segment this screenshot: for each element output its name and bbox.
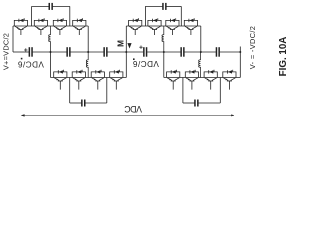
arrowhead pointing to node M [127,43,131,48]
IGBT cell Q6 with antiparallel diode D6 [148,18,161,35]
wire: flying capacitor CF1 right riser [69,6,71,26]
capacitor C4 (VDC/6 DC-link capacitor) [139,46,147,57]
tick mark next to VDC/6 label B [133,58,135,60]
IGBT cell Q2 with antiparallel diode D2 [34,18,47,35]
wire: DC-link rail from V+ to V- [13,51,240,53]
svg-text:VDC/6: VDC/6 [133,59,159,68]
IGBT cell Q3 with antiparallel diode D3 [53,18,66,35]
IGBT cell Q4 with antiparallel diode D4 [73,18,86,35]
node dot at L2 / bottom-right chain junction [163,51,165,53]
wire: flying capacitor CF2 top rail [145,5,181,7]
IGBT cell Q13 with antiparallel diode D13 [167,70,180,90]
wire: top-left chain bus (V+ arm) [13,25,88,27]
wire: M node riser (bus to DC rail), continues to bottom bus [125,26,127,78]
wire: flying capacitor CF4 right drop [219,78,221,104]
node M junction dot [125,51,127,53]
wire: top-left chain right leg down to DC rail at node N2 [87,26,89,52]
wire: flying capacitor CF2 left riser [144,6,146,26]
inductor L2 (top-right arm inductor) [162,26,164,52]
wire: bottom-right chain bus [164,77,241,79]
IGBT cell Q11 with antiparallel diode D11 [91,70,104,90]
node dot at L1 / bottom-left chain junction [50,51,52,53]
VDC dimension arrow across bottom [21,114,234,116]
IGBT cell Q1 with antiparallel diode D1 [14,18,27,35]
wire: bottom-left chain left leg from DC rail [50,52,52,78]
svg-text:VDC/6: VDC/6 [18,60,44,69]
capacitor C3 (DC-link capacitor) [103,47,107,57]
svg-text:FIG. 10A: FIG. 10A [278,37,289,77]
IGBT cell Q8 with antiparallel diode D8 [184,18,197,35]
IGBT cell Q14 with antiparallel diode D14 [185,70,198,90]
IGBT cell Q7 with antiparallel diode D7 [166,18,179,35]
tick mark next to VDC/6 label A [21,58,23,60]
svg-text:V- = -VDC/2: V- = -VDC/2 [248,26,257,69]
IGBT cell Q12 with antiparallel diode D12 [110,70,123,90]
IGBT cell Q10 with antiparallel diode D10 [72,70,85,90]
IGBT cell Q16 with antiparallel diode D16 [223,70,236,90]
capacitor C6 (DC-link capacitor) [216,47,220,57]
inductor L3 (bottom-left arm inductor) [86,52,88,78]
node dot at top-right chain end / L4 junction [200,51,202,53]
wire: bottom-left chain bus [51,77,127,79]
wire: top-right chain bus (M arm) [126,25,201,27]
capacitor CF1 (top-left flying capacitor) [49,3,53,10]
wire: flying capacitor CF1 left riser [31,6,33,26]
capacitor C2 (DC-link capacitor) [66,47,70,57]
wire: bottom-right chain left leg from DC rail [163,52,165,78]
capacitor CF4 (bottom-right flying capacitor) [194,100,198,107]
wire: flying capacitor CF2 right riser [180,6,182,26]
node dot at top-left chain end / L3 junction [87,51,89,53]
capacitor C5 (DC-link capacitor) [180,47,184,57]
wire: flying capacitor CF3 bottom rail [70,102,107,104]
capacitor C1 (VDC/6 DC-link capacitor) [24,47,33,57]
wire: flying capacitor CF3 left drop [69,78,71,104]
IGBT cell Q9 with antiparallel diode D9 [54,70,67,90]
wire: top-right chain right leg down to DC rail [200,26,202,52]
wire: flying capacitor CF1 top rail [32,5,70,7]
inductor L4 (bottom-right arm inductor) [199,52,201,78]
wire: bottom-right chain right leg to V- [239,52,241,78]
svg-text:V+=VDC/2: V+=VDC/2 [1,33,10,70]
capacitor CF3 (bottom-left flying capacitor) [81,100,85,107]
wire: flying capacitor CF4 bottom rail [183,102,220,104]
svg-text:M: M [116,40,125,47]
svg-text:VDC: VDC [124,104,142,114]
wire: V+ left leg down to DC rail [12,26,14,52]
IGBT cell Q15 with antiparallel diode D15 [204,70,217,90]
IGBT cell Q5 with antiparallel diode D5 [129,18,142,35]
wire: flying capacitor CF4 left drop [182,78,184,104]
inductor L1 (top-left arm inductor) [49,26,51,52]
node V- terminal dot and tick [239,47,241,54]
wire: flying capacitor CF3 right drop [106,78,108,104]
capacitor CF2 (top-right flying capacitor) [162,3,166,10]
